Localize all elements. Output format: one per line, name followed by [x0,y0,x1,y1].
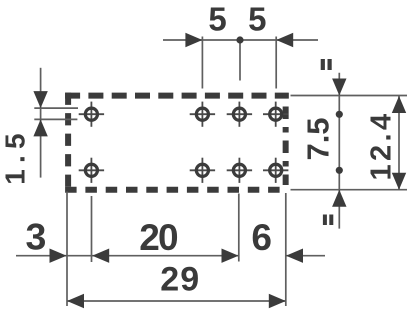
dimension line 12.4 vertical [398,96,400,190]
extension line hole col 2 down [238,194,240,262]
hole pin A2 (left bottom) [79,158,104,183]
dimension line 6 tail [286,255,325,257]
svg-text:20: 20 [139,217,178,258]
arrow tip at hole col 2 [222,249,239,263]
dimension line 7.5 vertical [338,73,340,229]
extension line from hole col 2 up [239,40,241,81]
arrow tip bottom outline [332,190,346,207]
svg-text:29: 29 [160,261,200,299]
arrow tip at left edge [50,249,67,263]
svg-text:7.5: 7.5 [300,117,335,160]
hole pin A1 (left top) [79,102,104,127]
arrow tip 12.4 bottom [392,173,406,190]
extension line from hole col 3 up [275,37,277,89]
svg-text:5: 5 [248,1,266,38]
arrow tip 29 right [269,294,286,308]
dimension line 29 [67,300,286,302]
hole pin C3 (bottom row) [263,158,288,183]
equality mark upper [321,59,332,70]
hole pin B3 (top row) [263,102,288,127]
equality mark lower [323,215,333,226]
extension line top of body right [291,95,408,97]
extension line bottom of body right [291,189,408,191]
svg-text:5: 5 [208,1,226,38]
arrow tip at right edge [286,249,303,263]
arrow tip 29 left [67,294,84,308]
dimension line 3-20 [16,255,239,257]
arrow tip upper 1.5 [33,91,47,108]
dot at bottom hole row [336,167,343,174]
svg-text:6: 6 [251,217,272,258]
extension line right edge down [285,193,287,306]
relay body outline left edge (dashed) [65,93,71,187]
hole pin B2 (top row) [227,102,252,127]
extension line hole col left down [91,196,93,262]
hole pin B1 (top row) [190,102,215,127]
svg-text:1.5: 1.5 [0,127,31,185]
extension line from hole col 1 up [201,37,203,89]
arrow tip top outline [332,79,346,96]
arrow tip at hole col left [92,249,109,263]
relay body outline top edge (dashed) [65,93,289,99]
extension line hole top edge [34,107,78,109]
extension line hole bottom edge [34,118,77,120]
dimension dot at col2 [236,36,243,43]
extension line left edge down [66,192,68,307]
dimension line 5-5 [163,39,318,41]
relay body outline bottom edge (dashed) [65,187,286,193]
arrow tip at col1 [185,33,202,47]
dot at top hole row [336,111,343,118]
hole pin C1 (bottom row) [190,158,215,183]
hole pin C2 (bottom row) [227,158,252,183]
svg-text:3: 3 [25,215,46,257]
svg-text:12.4: 12.4 [365,110,397,180]
arrow tip at col3 [276,33,293,47]
arrow tip 12.4 top [392,96,406,113]
dimension line 1.5 vertical [40,68,42,178]
relay body outline right edge (dashed) [283,93,289,185]
arrow tip lower 1.5 [33,119,47,136]
